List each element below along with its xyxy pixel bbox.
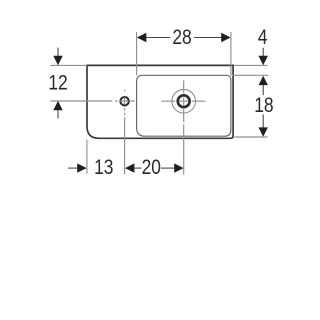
dimension 12 label xyxy=(48,72,67,95)
dimension 18 line xyxy=(262,85,264,128)
dimension 18 extension line bottom xyxy=(235,136,268,138)
dimension 28 arrow left xyxy=(137,33,146,42)
svg-text:20: 20 xyxy=(142,156,161,179)
dimension 13 extension line left xyxy=(86,140,88,174)
dimension 28 label xyxy=(172,26,191,49)
dimension 4 leader top xyxy=(262,48,264,57)
dimension 4 arrow top xyxy=(259,56,268,65)
dimension 4 label xyxy=(258,26,268,49)
drain outer circle xyxy=(172,89,196,113)
dimension 18 arrow bottom xyxy=(259,127,268,136)
dimension 13 label xyxy=(94,156,113,179)
svg-text:28: 28 xyxy=(172,26,191,49)
dimension 12 arrow bottom xyxy=(53,101,62,110)
dimension 12 extension line top xyxy=(50,64,87,66)
drain centerline vertical xyxy=(183,80,185,174)
svg-text:18: 18 xyxy=(254,95,273,118)
dimension 20 line left stub xyxy=(134,167,141,169)
washbasin outer body outline xyxy=(87,65,233,138)
dimension 28 extension line right xyxy=(230,32,232,76)
svg-text:13: 13 xyxy=(94,156,113,179)
dimension 13 arrow left xyxy=(77,163,86,172)
dimension 18 label xyxy=(254,95,273,118)
tap hole centerline vertical xyxy=(124,90,126,175)
dimension 13 arrow right / dimension 20 arrow left xyxy=(125,163,134,172)
tap hole centerline horizontal xyxy=(50,100,134,102)
dimension 18 arrow top xyxy=(259,76,268,85)
dimension 28 extension line left xyxy=(136,32,138,76)
basin rim extension line right xyxy=(232,74,269,76)
drain centerline horizontal xyxy=(162,100,206,102)
dimension 20 line right stub xyxy=(161,167,174,169)
svg-text:4: 4 xyxy=(258,26,268,49)
dimension 12 leader bottom xyxy=(57,110,59,119)
tap hole circle xyxy=(120,97,128,105)
drain bold circle xyxy=(178,95,190,107)
dimension 28 arrow right xyxy=(221,33,230,42)
washbasin inner basin outline xyxy=(137,75,231,136)
dimension 13 leader left xyxy=(68,167,77,169)
dimension 12 arrow top xyxy=(53,56,62,65)
dimension 28 line xyxy=(146,37,222,39)
dimension 20 label xyxy=(142,156,161,179)
svg-text:12: 12 xyxy=(48,72,67,95)
dimension 20 arrow right xyxy=(174,163,183,172)
dimension 12 leader top xyxy=(57,48,59,57)
dimension 4 extension line top xyxy=(234,64,268,66)
